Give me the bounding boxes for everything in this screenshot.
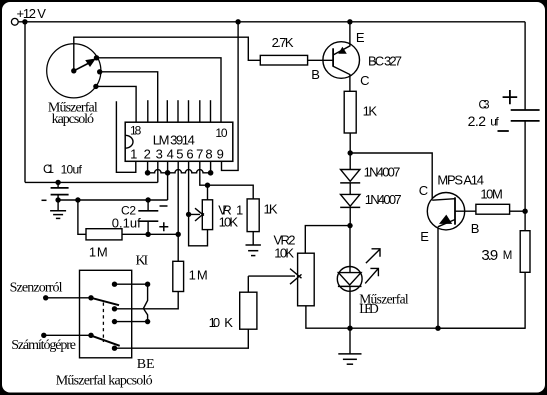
wire Szenzorrol to pole 1 [46, 297, 91, 299]
junction diode bottom node [347, 223, 352, 228]
junction bus pin 4 [165, 170, 171, 176]
svg-text:1: 1 [89, 244, 96, 259]
svg-text:E: E [356, 30, 365, 45]
svg-text:4: 4 [167, 146, 174, 161]
svg-text:BE: BE [137, 357, 155, 372]
svg-text:C3: C3 [479, 100, 490, 112]
junction 1K bottom node [348, 150, 353, 155]
wire LED node to emitter and 3.9M [350, 327, 525, 329]
svg-text:1: 1 [130, 146, 137, 161]
resistor 1K collector [344, 91, 377, 153]
node contact KI [112, 282, 117, 287]
resistor 10K [115, 292, 257, 348]
svg-text:KI: KI [136, 254, 149, 269]
wire pin 2 stub [147, 161, 149, 173]
svg-text:1K: 1K [363, 104, 378, 119]
svg-text:Műszerfal kapcsoló: Műszerfal kapcsoló [56, 374, 153, 389]
svg-text:B: B [311, 67, 320, 82]
junction bus pin 8 [208, 170, 214, 176]
node pole 1 [88, 295, 93, 300]
wire pin 5 drop [177, 161, 179, 261]
capacitor C3 [468, 22, 540, 231]
wire rotary contact2 to pin 16 [100, 72, 158, 122]
svg-text:M: M [197, 268, 208, 283]
svg-text:10: 10 [215, 126, 227, 140]
svg-text:10K: 10K [219, 215, 239, 230]
node Szamitogepre terminal [11, 333, 76, 353]
svg-text:V: V [37, 6, 46, 21]
svg-text:C1: C1 [43, 162, 54, 176]
node C1 top junction [55, 180, 60, 185]
pin 13 stub [188, 100, 190, 122]
svg-text:1N4007: 1N4007 [364, 165, 401, 180]
wire Szamitogepre to pole 2 [44, 334, 91, 336]
svg-text:10: 10 [209, 315, 221, 330]
wire pin 3 riser [157, 161, 159, 182]
transistor Q2 MPS A14 [419, 172, 484, 328]
svg-text:kapcsoló: kapcsoló [52, 112, 94, 127]
svg-text:M: M [97, 244, 108, 259]
svg-text:0.1uf: 0.1uf [112, 216, 141, 231]
svg-text:3.9: 3.9 [481, 247, 498, 264]
svg-text:C: C [360, 73, 369, 88]
junction LED bottom node [347, 326, 352, 331]
junction on top rail to pin 9 drop [235, 19, 240, 24]
node KI outer [145, 282, 150, 287]
wire rotary contact3 to pin 18 [96, 86, 136, 122]
junction VR1 wiper [186, 212, 191, 217]
svg-text:2.7K: 2.7K [272, 35, 294, 50]
svg-text:7: 7 [196, 146, 203, 161]
wire contact KI right [115, 283, 148, 285]
wire ground bus under IC with hops [148, 170, 211, 173]
svg-text:C: C [419, 183, 428, 198]
node pole 2 [88, 333, 93, 338]
pin 17 stub [147, 100, 149, 122]
node C1 bottom junction [55, 197, 60, 202]
svg-text:6: 6 [186, 146, 193, 161]
wire pin 9 to +12V rail [222, 22, 239, 171]
resistor 1M vertical [115, 261, 208, 309]
junction pin7 node [205, 183, 210, 188]
node Szenzorrol terminal [10, 280, 63, 300]
wire pin 1 stub open [116, 101, 135, 172]
wire junction to 1K [208, 185, 254, 199]
node contact C [112, 319, 117, 324]
wire pin 8 stub [210, 161, 212, 173]
svg-text:10uf: 10uf [61, 162, 83, 176]
node +12V terminal [11, 6, 46, 25]
svg-text:MPS A14: MPS A14 [437, 172, 484, 187]
LED Muszerfal LED [337, 226, 409, 329]
potentiometer VR1 [202, 185, 243, 229]
capacitor C1 [42, 162, 83, 200]
svg-text:2.2: 2.2 [468, 113, 487, 129]
junction pin5 / C2 rail [176, 232, 181, 237]
svg-text:1N4007: 1N4007 [365, 192, 402, 207]
svg-text:8: 8 [205, 146, 212, 161]
wire pin 6 drop to VR1 wiper [189, 161, 208, 246]
potentiometer VR2 [274, 233, 351, 329]
junction bus pin 2 [145, 170, 151, 176]
svg-text:M: M [503, 250, 513, 262]
resistor 1K (reference) [247, 199, 278, 245]
wire ground rail y200 to pin 4 [58, 199, 168, 201]
resistor 3.9M [438, 231, 530, 329]
wire node to VR2 top [305, 226, 350, 254]
wire pin 4 riser [167, 161, 169, 200]
svg-text:LM 3914: LM 3914 [153, 133, 195, 148]
svg-text:B: B [471, 221, 480, 236]
wire rotary wiper to 2.7K [74, 37, 260, 71]
svg-text:BC 327: BC 327 [368, 54, 402, 69]
capacitor C2 [112, 200, 169, 234]
wire rotary contact1 to pin 10 [97, 58, 222, 122]
junction on top rail to BC327 emitter [347, 19, 352, 24]
wire contact C right [115, 321, 148, 323]
junction emitter node [435, 326, 440, 331]
svg-text:1K: 1K [264, 202, 278, 217]
svg-text:2: 2 [144, 146, 151, 161]
pin 15 stub [166, 100, 168, 122]
diode D2 1N4007 [340, 192, 401, 225]
wire pin 7 to VR1/1K junction [200, 161, 208, 185]
diode D1 1N4007 [340, 153, 400, 194]
svg-text:5: 5 [176, 146, 183, 161]
ground below C1 [50, 200, 66, 218]
wire wiper to 10K [247, 276, 249, 292]
resistor 1M horizontal [78, 200, 178, 259]
svg-text:E: E [420, 229, 429, 244]
switch box Muszerfal kapcsolo DPDT [56, 254, 155, 389]
svg-text:3: 3 [156, 146, 163, 161]
svg-text:LED: LED [359, 301, 379, 316]
svg-text:Szenzorról: Szenzorról [10, 280, 63, 295]
junction C2 bottom [145, 232, 150, 237]
pin 14 stub [177, 100, 179, 122]
op-amp U1 LM3914 body [125, 122, 233, 161]
wire S-bend KI to lower contact [143, 284, 147, 321]
svg-text:9: 9 [217, 146, 224, 161]
LED light arrow upper [366, 249, 380, 263]
wire node to MPSA14 collector [350, 153, 432, 199]
svg-text:10M: 10M [480, 187, 502, 202]
switch blade 1 [91, 298, 119, 305]
transistor Q1 BC327 [311, 22, 402, 92]
node C outer [145, 319, 150, 324]
junction C2 top tap [145, 197, 150, 202]
VR2 wiper arrow [248, 269, 301, 285]
svg-text:10K: 10K [274, 246, 294, 261]
svg-text:uf: uf [490, 114, 499, 128]
svg-text:+12: +12 [17, 6, 37, 21]
switch blade 2 [91, 336, 120, 346]
LED light arrow lower [365, 268, 378, 283]
junction 10M right node [522, 209, 527, 214]
wire V+ horizontal to pin 3 [25, 181, 158, 183]
rotary switch Muszerfal kapcsolo [47, 44, 103, 127]
wire +12V top rail [18, 21, 525, 23]
svg-text:18: 18 [130, 123, 142, 137]
VR1 wiper arrow [189, 208, 204, 221]
switch link dashed [102, 303, 104, 343]
svg-text:1: 1 [189, 268, 196, 283]
junction 1M-a tap [75, 197, 80, 202]
svg-text:Számítógépre: Számítógépre [11, 338, 76, 353]
ground below 1K [246, 245, 261, 256]
resistor 2.7K [260, 35, 333, 65]
node contact BE [112, 346, 117, 351]
wire +12V left drop to V+ line [24, 22, 26, 183]
node contact middle B [112, 306, 117, 311]
pin 12 stub [199, 100, 201, 122]
resistor 10M [455, 187, 525, 215]
svg-text:K: K [224, 315, 233, 330]
pin 11 stub [210, 100, 212, 122]
ground below LED [338, 328, 361, 364]
